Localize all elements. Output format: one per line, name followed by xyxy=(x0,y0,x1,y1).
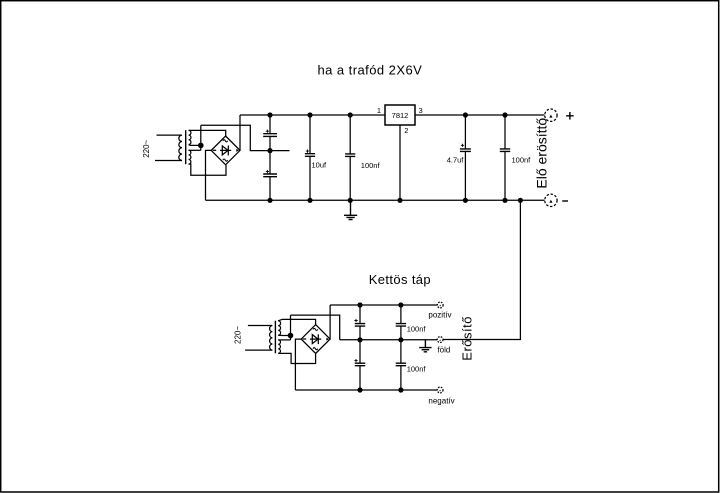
svg-text:pozitív: pozitív xyxy=(428,311,451,320)
svg-text:1: 1 xyxy=(377,106,381,115)
svg-text:Kettös táp: Kettös táp xyxy=(369,272,431,287)
svg-text:7812: 7812 xyxy=(392,111,409,120)
wire top rail left (bridge to 7812 pin1) xyxy=(240,114,385,116)
svg-text:Erősítő: Erősítő xyxy=(460,316,475,361)
capacitor C9 100nf wires xyxy=(400,305,402,340)
wire secondary lower bottom lead to bridge bottom corner xyxy=(278,353,315,363)
transformer T1 primary lead top xyxy=(157,134,183,136)
wire top rail bottom circuit xyxy=(330,304,437,306)
capacitor C2 (lower of series pair) wires xyxy=(269,151,271,201)
ground symbol top circuit xyxy=(344,200,357,219)
wire center tap up-over to caps midpoint xyxy=(201,125,290,150)
capacitor C8 plates xyxy=(355,363,365,366)
bridge B1 ac tilde bottom xyxy=(223,159,228,161)
transformer T2 primary winding xyxy=(270,326,273,351)
svg-text:Elő erösíttő: Elő erösíttő xyxy=(534,118,550,189)
bridge B1 diode cathode bar xyxy=(227,146,229,156)
bridge B1 plus mark xyxy=(236,149,239,152)
bridge B2 diode triangle xyxy=(312,335,318,344)
capacitor C3 plates xyxy=(305,154,315,157)
node dots bottom circuit xyxy=(288,302,404,392)
transformer T1 primary winding xyxy=(179,135,182,160)
bridge B2 plus mark xyxy=(326,338,329,341)
transformer T1 primary lead bottom xyxy=(155,160,182,162)
wire secondary lower top lead xyxy=(278,339,290,341)
capacitor C7 plates xyxy=(355,324,365,327)
svg-text:220~: 220~ xyxy=(142,139,151,157)
terminal pozitív circle xyxy=(437,302,443,308)
wire center tap vertical xyxy=(200,125,202,150)
wire secondary upper top lead to bridge top corner xyxy=(189,130,226,136)
wire bridge right corner to top rail xyxy=(329,305,331,339)
wire secondary lower top lead xyxy=(189,149,201,151)
capacitor C7 plus mark xyxy=(354,319,357,322)
svg-text:2: 2 xyxy=(404,126,408,135)
svg-text:4.7uf: 4.7uf xyxy=(447,156,465,165)
bridge B2 ac tilde top xyxy=(313,328,318,330)
capacitor C8 plus mark xyxy=(354,359,357,362)
wire secondary lower bottom lead to bridge bottom corner xyxy=(189,164,226,175)
terminal negatív circle xyxy=(437,387,443,393)
wire bridge right corner to top rail xyxy=(239,115,241,150)
wire top rail right (7812 pin3 to + terminal) xyxy=(415,114,545,116)
capacitor C1 plus mark xyxy=(266,130,269,133)
node dots top circuit xyxy=(198,112,523,202)
wire mid rail bottom circuit xyxy=(340,339,438,341)
transformer T1 core xyxy=(185,130,187,164)
terminal + output circle xyxy=(545,109,557,121)
capacitor C5 plates xyxy=(460,149,471,152)
transformer T2 secondary winding upper xyxy=(278,321,280,335)
terminal - inner arrow xyxy=(549,200,552,203)
svg-text:100nf: 100nf xyxy=(361,161,381,170)
capacitor C5 4.7uf wires xyxy=(464,115,466,200)
transformer T1 secondary winding lower xyxy=(189,150,191,164)
wire secondary upper bottom lead to center tap xyxy=(189,144,201,147)
bridge rectifier B1 diamond xyxy=(211,136,240,165)
wire bridge left corner to bottom rail xyxy=(206,150,212,200)
plus sign label xyxy=(566,112,574,120)
capacitor C4 plates xyxy=(345,154,355,157)
capacitor C8 100nf wires xyxy=(359,340,361,390)
terminal negatív inner mark xyxy=(439,390,441,392)
svg-text:220~: 220~ xyxy=(233,326,242,344)
minus sign label xyxy=(562,200,568,202)
regulator U1 pin2 wire xyxy=(399,125,401,200)
capacitor C3 10uf wires xyxy=(309,115,311,200)
regulator U1 7812 box xyxy=(385,105,415,125)
capacitor C6 plates xyxy=(500,149,510,152)
capacitor C2 plus mark xyxy=(266,170,269,173)
bridge rectifier B2 diamond xyxy=(301,325,330,354)
bridge B2 minus mark xyxy=(303,338,306,340)
wire secondary upper bottom lead to center tap xyxy=(278,334,290,336)
transformer T2 primary lead top xyxy=(248,325,272,327)
capacitor C4 100nf wires xyxy=(349,115,351,200)
wire bridge left corner to bottom rail xyxy=(295,339,301,390)
bridge B1 ac tilde top xyxy=(223,140,228,142)
transformer T2 core xyxy=(274,321,276,354)
svg-text:ha a trafód 2X6V: ha a trafód 2X6V xyxy=(318,63,423,78)
terminal föld inner mark xyxy=(439,339,441,341)
terminal pozitív inner mark xyxy=(439,305,441,307)
bridge B2 diode lead xyxy=(310,338,321,340)
wire bottom rail bottom circuit xyxy=(295,389,437,391)
capacitor C9 plates xyxy=(396,324,406,327)
terminal - output circle xyxy=(545,194,557,206)
bridge B1 diode lead xyxy=(220,149,231,151)
capacitor C1 (upper of series pair) wires xyxy=(269,115,271,151)
svg-text:föld: föld xyxy=(437,345,450,354)
capacitor C3 plus mark xyxy=(306,150,309,153)
terminal föld circle xyxy=(437,337,443,343)
transformer T2 secondary winding lower xyxy=(278,340,280,354)
capacitor C2 plates xyxy=(263,174,277,177)
wire center tap vertical xyxy=(290,315,292,340)
svg-text:100nf: 100nf xyxy=(512,156,532,165)
svg-text:negatív: negatív xyxy=(428,396,454,405)
capacitor C6 100nf wires xyxy=(504,115,506,200)
capacitor C10 plates xyxy=(396,363,406,366)
transformer T1 secondary winding upper xyxy=(189,130,191,144)
svg-text:3: 3 xyxy=(419,106,423,115)
terminal + inner arrow xyxy=(549,115,552,118)
svg-text:100nf: 100nf xyxy=(407,325,427,334)
transformer T2 primary lead bottom xyxy=(245,349,272,351)
bridge B2 ac tilde bottom xyxy=(313,348,318,350)
bridge B1 diode triangle xyxy=(222,146,228,155)
bridge B1 minus mark xyxy=(213,149,216,151)
svg-text:10uf: 10uf xyxy=(312,160,328,169)
wire bottom rail xyxy=(206,199,545,201)
wire center tap up-over to mid rail xyxy=(291,315,340,340)
capacitor C7 100nf wires xyxy=(359,305,361,340)
ground symbol bottom circuit xyxy=(419,340,431,352)
svg-text:100nf: 100nf xyxy=(407,364,427,373)
capacitor C10 100nf wires xyxy=(400,340,402,390)
bridge B2 diode cathode bar xyxy=(317,334,319,344)
wire minus rail down to föld terminal xyxy=(443,200,520,339)
capacitor C1 plates xyxy=(263,134,277,137)
capacitor C5 plus mark xyxy=(461,144,464,147)
wire secondary upper top lead to bridge top corner xyxy=(278,319,315,324)
